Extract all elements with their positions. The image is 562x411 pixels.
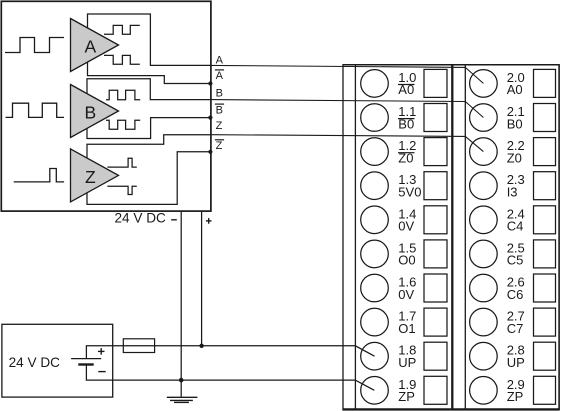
terminal 2.7 clamp square xyxy=(534,308,556,336)
svg-text:24 V DC: 24 V DC xyxy=(115,210,167,225)
terminal 1.3 clamp square xyxy=(424,172,447,200)
wire A to terminal 2.0 xyxy=(211,65,483,83)
ground xyxy=(180,380,182,397)
terminal blocks bottom bar xyxy=(342,408,559,410)
label Abar xyxy=(215,69,224,71)
terminal 2.8 screw xyxy=(470,342,498,370)
node ZP junction xyxy=(179,378,184,383)
svg-text:0V: 0V xyxy=(398,287,414,302)
terminal 1.6 clamp square xyxy=(424,274,447,302)
terminal 1.9 screw xyxy=(361,377,389,405)
wire B / Bbar loop (channel B outputs) xyxy=(87,79,211,139)
svg-text:A: A xyxy=(216,54,224,66)
waveform input B xyxy=(6,103,64,117)
terminal block 2 outline xyxy=(464,65,466,410)
op-amp Z xyxy=(71,149,119,202)
terminal 1.5 clamp square xyxy=(424,240,447,268)
terminal 2.6 screw xyxy=(470,274,498,302)
terminal 1.3 screw xyxy=(361,172,389,200)
terminal 2.0 clamp square xyxy=(534,69,556,97)
svg-text:C5: C5 xyxy=(507,253,524,268)
op-amp A xyxy=(71,19,119,72)
svg-text:5V0: 5V0 xyxy=(398,185,421,200)
svg-text:24 V DC: 24 V DC xyxy=(9,355,61,370)
power supply box xyxy=(2,324,113,397)
wire ZP (0V to terminal 1.9) xyxy=(86,365,374,391)
svg-text:UP: UP xyxy=(398,355,416,370)
waveform input A xyxy=(5,38,64,53)
wire A / Abar loop (channel A outputs) xyxy=(88,14,212,84)
terminal 1.0 clamp square xyxy=(424,69,447,97)
svg-text:C6: C6 xyxy=(507,287,524,302)
svg-text:Z: Z xyxy=(216,140,223,152)
terminal 2.3 screw xyxy=(470,172,498,200)
node Bbar junction xyxy=(208,116,212,120)
node UP junction xyxy=(199,344,203,348)
terminal 1.6 screw xyxy=(361,274,389,302)
battery negative plate xyxy=(78,363,93,365)
svg-text:A0: A0 xyxy=(507,82,523,97)
waveform Bbar out xyxy=(106,120,140,129)
svg-text:UP: UP xyxy=(507,355,525,370)
node Abar junction xyxy=(208,81,212,85)
encoder minus sign xyxy=(171,219,177,221)
svg-text:A: A xyxy=(84,36,96,56)
terminal 1.2 clamp square xyxy=(424,138,447,166)
wire Z / Zbar loop (channel Z outputs) xyxy=(87,135,211,205)
encoder plus sign xyxy=(206,220,212,222)
svg-text:B: B xyxy=(216,104,223,116)
fuse F1 xyxy=(123,339,154,353)
terminal 2.3 clamp square xyxy=(534,172,556,200)
battery minus sign xyxy=(98,371,105,373)
terminal 1.2 screw xyxy=(361,138,389,166)
terminal 2.5 clamp square xyxy=(534,240,556,268)
battery plus sign xyxy=(98,350,105,352)
label Zbar xyxy=(215,139,224,141)
svg-text:O1: O1 xyxy=(398,321,415,336)
terminal 2.0 screw xyxy=(470,70,498,98)
terminal 2.6 clamp square xyxy=(534,274,556,302)
wire B to terminal 2.1 xyxy=(211,100,483,118)
terminal block 1 outline xyxy=(342,64,559,66)
svg-text:Z: Z xyxy=(216,120,223,132)
terminal 1.8 clamp square xyxy=(424,342,447,370)
wire Z to terminal 2.2 xyxy=(211,135,483,152)
terminal 2.5 screw xyxy=(470,240,498,268)
terminal 2.9 screw xyxy=(470,377,498,405)
terminal 1.8 screw xyxy=(361,342,389,370)
wire UP (+24V to terminal 1.8) xyxy=(86,346,374,359)
waveform input Z xyxy=(14,169,64,182)
svg-text:O0: O0 xyxy=(398,253,415,268)
terminal 1.0 screw xyxy=(361,70,389,98)
terminal 2.4 screw xyxy=(470,206,498,234)
terminal 1.4 screw xyxy=(361,206,389,234)
label Bbar xyxy=(215,103,224,105)
svg-text:ZP: ZP xyxy=(507,389,524,404)
svg-text:0V: 0V xyxy=(398,219,414,234)
terminal 2.9 clamp square xyxy=(534,376,556,404)
terminal 2.7 screw xyxy=(470,308,498,336)
terminal 2.4 clamp square xyxy=(534,206,556,234)
terminal 1.4 clamp square xyxy=(424,206,447,234)
battery positive plate xyxy=(71,358,101,360)
terminal 2.1 screw xyxy=(470,104,498,132)
waveform Zbar out xyxy=(107,186,136,194)
svg-text:Z0: Z0 xyxy=(507,150,522,165)
waveform B out xyxy=(106,90,140,100)
waveform Z out xyxy=(107,158,136,167)
wire encoder plus lead xyxy=(201,212,203,346)
svg-text:C4: C4 xyxy=(507,219,524,234)
svg-text:B: B xyxy=(216,87,223,99)
svg-text:I3: I3 xyxy=(507,185,518,200)
terminal 1.5 screw xyxy=(361,240,389,268)
terminal 2.2 screw xyxy=(470,138,498,166)
terminal 1.1 screw xyxy=(361,104,389,132)
terminal 1.9 clamp square xyxy=(424,376,447,404)
terminal 1.1 clamp square xyxy=(424,104,447,132)
node Zbar junction xyxy=(208,150,212,154)
encoder box xyxy=(1,1,211,211)
svg-text:Z: Z xyxy=(85,167,96,187)
svg-text:A: A xyxy=(216,70,224,82)
terminal 2.8 clamp square xyxy=(534,342,556,370)
svg-text:B0: B0 xyxy=(507,116,523,131)
waveform A out xyxy=(104,25,140,34)
terminal 1.7 screw xyxy=(361,308,389,336)
terminal 2.2 clamp square xyxy=(534,138,556,166)
terminal 1.7 clamp square xyxy=(424,308,447,336)
wire encoder minus lead xyxy=(180,212,182,380)
op-amp B xyxy=(71,85,119,138)
waveform Abar out xyxy=(104,55,140,64)
svg-text:ZP: ZP xyxy=(398,389,415,404)
svg-text:B: B xyxy=(84,102,96,122)
svg-text:C7: C7 xyxy=(507,321,524,336)
terminal 2.1 clamp square xyxy=(534,104,556,132)
